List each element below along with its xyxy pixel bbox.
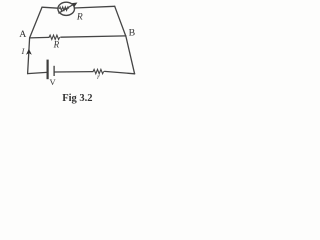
wire top-left slant A to top rail [30,7,42,38]
wire top rail left segment [42,7,58,8]
resistor r (internal resistance, bottom branch) [93,69,104,73]
wire bottom left to battery [28,72,47,73]
svg-text:r: r [97,73,100,81]
svg-text:A: A [19,29,26,40]
svg-text:R: R [76,13,83,23]
svg-text:I: I [21,47,25,56]
svg-text:R: R [53,40,60,50]
svg-text:B: B [129,28,136,39]
wire right slant up to B [126,36,135,73]
resistor R (middle branch) [49,35,60,39]
wire top-right slant to B [115,6,126,36]
wire top rail right segment [74,6,115,8]
wire battery to resistor r [55,71,93,73]
variable resistor (rheostat) in circle, top branch [58,2,78,15]
current arrow I on left wire [26,49,32,55]
wire middle A to B [30,36,126,38]
wire left vertical A down [28,38,30,74]
battery V (cell) [48,60,55,80]
svg-text:V: V [50,77,57,87]
svg-text:Fig 3.2: Fig 3.2 [62,93,92,104]
wire resistor r to bottom-right corner [105,71,135,73]
